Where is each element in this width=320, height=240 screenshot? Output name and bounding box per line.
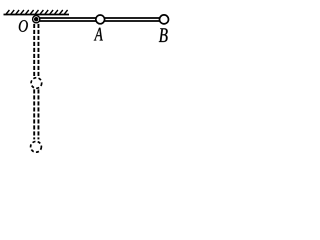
dashed ball 2: [31, 141, 42, 152]
pivot O (center dot): [34, 17, 39, 22]
dashed string upper segment (double dashed line): [34, 24, 38, 77]
label A: [94, 28, 103, 41]
ceiling line: [4, 14, 70, 16]
label O: [19, 20, 28, 32]
hinge circle A: [96, 15, 105, 24]
label B: [159, 28, 168, 42]
dashed string lower segment (double dashed line): [34, 89, 38, 139]
rod OB (double line): [37, 18, 161, 21]
ceiling hatching: [6, 10, 68, 14]
end ball B: [160, 15, 169, 24]
dashed ball 1: [31, 78, 42, 89]
pivot O (ring): [33, 16, 40, 23]
